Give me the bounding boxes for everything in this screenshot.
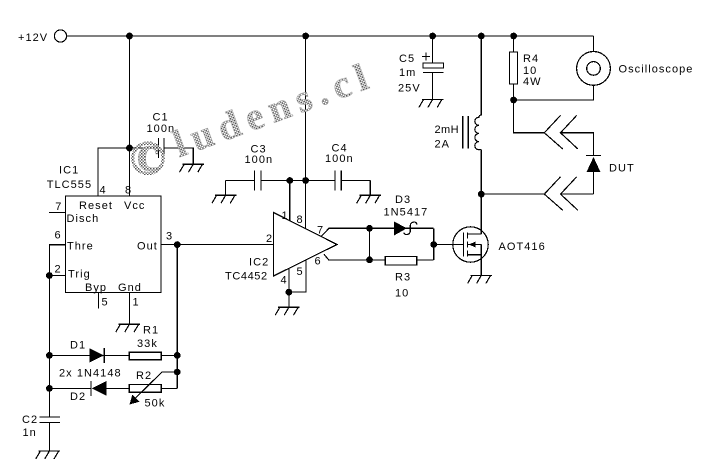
wire upper chevron to diode [561, 133, 594, 156]
resistor R3 [385, 256, 433, 299]
svg-text:Byp: Byp [85, 282, 107, 294]
wire feedback column [176, 245, 178, 389]
junction R1 right [174, 352, 181, 359]
svg-text:c: c [137, 126, 160, 183]
inductor L1 2mH [435, 36, 482, 234]
svg-text:C1: C1 [153, 112, 169, 124]
svg-text:R4: R4 [523, 53, 539, 65]
junction rail-R4 [510, 33, 517, 40]
junction DUT lower node [478, 191, 485, 198]
svg-text:2A: 2A [435, 139, 451, 151]
svg-text:1: 1 [133, 297, 140, 309]
resistor R1 [129, 325, 177, 360]
junction D3 left [366, 225, 373, 232]
junction C3 row pin8 [302, 177, 309, 184]
svg-text:5: 5 [102, 297, 109, 309]
svg-text:6: 6 [55, 230, 62, 242]
pin 2 wire Trig [49, 264, 65, 276]
capacitor C1 [147, 112, 176, 159]
junction Trig node [46, 272, 53, 279]
svg-text:Thre: Thre [67, 241, 94, 253]
wire C1 right to ground [164, 148, 193, 164]
svg-text:6: 6 [315, 256, 322, 268]
svg-text:R3: R3 [395, 272, 411, 284]
wire lower chevron to diode [561, 193, 594, 195]
junction R2 wiper [174, 369, 181, 376]
junction C1 node [126, 145, 133, 152]
ground C2 [36, 451, 60, 459]
wire IC2 pin7 [317, 225, 434, 237]
svg-text:3: 3 [166, 231, 173, 243]
svg-text:IC1: IC1 [59, 165, 79, 177]
ground MOSFET source [468, 275, 492, 283]
diode D3 [384, 194, 429, 236]
svg-text:7: 7 [55, 201, 62, 213]
connector upper chevrons [544, 115, 578, 149]
svg-text:4: 4 [100, 185, 107, 197]
svg-text:2: 2 [55, 264, 62, 276]
ground C5 [419, 99, 443, 107]
svg-text:TLC555: TLC555 [47, 179, 92, 191]
junction IC2 gnd [286, 289, 293, 296]
ground IC2 [275, 307, 299, 315]
junction D1 left [46, 352, 53, 359]
ground C3 [212, 195, 236, 203]
resistor R4 [510, 36, 542, 100]
svg-text:DUT: DUT [609, 163, 635, 175]
svg-text:2mH: 2mH [435, 124, 459, 136]
wire IC2 pin4 [281, 268, 289, 292]
wire IC2 pin6 [315, 254, 434, 267]
node +12V terminal [18, 30, 67, 44]
svg-text:8: 8 [297, 214, 304, 226]
svg-text:33k: 33k [137, 338, 158, 350]
svg-text:7: 7 [317, 225, 324, 237]
pin 7 stub Disch [49, 201, 65, 213]
wire DUT upper lead [514, 100, 545, 133]
svg-text:R1: R1 [143, 325, 159, 337]
svg-text:Reset: Reset [79, 200, 113, 212]
svg-text:D3: D3 [395, 194, 411, 206]
junction rail-L1 [478, 33, 485, 40]
svg-text:4W: 4W [523, 76, 542, 88]
wire rail to 555 Vcc pin 8 [129, 36, 131, 196]
svg-text:+12V: +12V [18, 32, 48, 44]
wire Out to IC2 pin2 [161, 244, 273, 246]
svg-text:5: 5 [297, 266, 304, 278]
svg-text:100n: 100n [325, 153, 354, 165]
svg-text:Disch: Disch [67, 213, 100, 225]
wire C3-C4 row [261, 180, 335, 182]
svg-text:100n: 100n [245, 154, 274, 166]
capacitor C3 [226, 144, 274, 196]
ground IC1 [116, 324, 140, 332]
wire gate to MOSFET [434, 244, 464, 246]
capacitor C4 [325, 143, 370, 196]
svg-text:C2: C2 [22, 414, 38, 426]
wire left column down to C2 [48, 276, 50, 418]
pin 1 wire Gnd [130, 292, 140, 324]
junction R3 left [366, 257, 373, 264]
pin 6 wire Thre [49, 230, 65, 276]
wire pin7-pin6 tie [369, 228, 371, 260]
svg-text:25V: 25V [398, 83, 421, 95]
junction rail-Vcc2 [302, 33, 309, 40]
svg-text:10: 10 [395, 288, 409, 300]
junction rail-C5 [429, 33, 436, 40]
junction gate node [430, 241, 437, 248]
pin 5 stub Byp [99, 292, 109, 308]
svg-text:1m: 1m [399, 67, 416, 79]
svg-text:AOT416: AOT416 [499, 241, 546, 253]
svg-text:Gnd: Gnd [118, 282, 142, 294]
capacitor C5 [398, 36, 444, 99]
diode D1 [49, 340, 129, 364]
transistor Q1 AOT416 MOSFET [453, 227, 546, 276]
ground C1 [180, 164, 204, 172]
svg-text:2: 2 [266, 233, 273, 245]
svg-text:IC2: IC2 [249, 257, 269, 269]
svg-text:R2: R2 [136, 370, 152, 382]
wire pin4 branch [98, 148, 130, 196]
wire Vcc column to IC2 [305, 36, 307, 228]
svg-text:Vcc: Vcc [124, 200, 146, 212]
op-amp IC2 TC4452 [225, 213, 337, 283]
svg-text:1N5417: 1N5417 [384, 207, 429, 219]
wire IC2 pin5 [289, 260, 306, 292]
svg-text:Oscilloscope: Oscilloscope [619, 64, 694, 76]
svg-text:D1: D1 [70, 340, 86, 352]
wire IC2 pin1 [282, 181, 290, 223]
svg-text:Trig: Trig [68, 269, 91, 281]
connector lower chevrons [544, 177, 578, 211]
svg-text:8: 8 [125, 185, 132, 197]
ground C4 [357, 195, 381, 203]
junction Out node [174, 241, 181, 248]
junction C3 row pin1 [286, 177, 293, 184]
wire gate column [433, 228, 435, 260]
oscilloscope connector [514, 36, 694, 100]
svg-text:Out: Out [137, 241, 158, 253]
resistor R2 potentiometer [129, 370, 177, 410]
svg-text:1n: 1n [23, 427, 37, 439]
svg-text:50k: 50k [145, 398, 166, 410]
wire IC2 gnd down [288, 292, 290, 307]
watermark ludens.cl [133, 53, 381, 182]
diode D2 [49, 381, 129, 403]
junction D2 left [46, 385, 53, 392]
junction R4 bottom [510, 97, 517, 104]
wire top +12V rail [66, 35, 593, 37]
svg-text:1: 1 [282, 210, 289, 222]
svg-text:2x 1N4148: 2x 1N4148 [59, 368, 122, 380]
wire C1 left [130, 147, 159, 149]
junction rail-C1 [126, 33, 133, 40]
svg-text:4: 4 [281, 275, 288, 287]
capacitor C2 [22, 414, 60, 451]
svg-text:TC4452: TC4452 [225, 271, 268, 283]
wire DUT lower lead [481, 193, 544, 195]
IC1 TLC555 body [47, 165, 161, 295]
svg-text:C5: C5 [399, 53, 415, 65]
diode DUT [586, 156, 635, 195]
svg-text:D2: D2 [70, 391, 86, 403]
